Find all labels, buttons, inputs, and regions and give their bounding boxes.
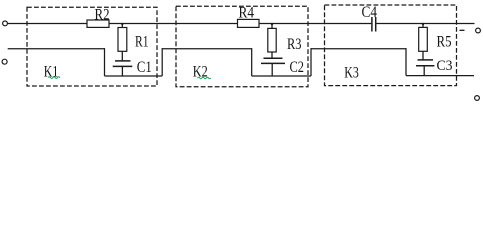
- wire R1 to C1: [121, 51, 123, 61]
- wire drop 3: [405, 48, 407, 76]
- resistor R2: [87, 20, 109, 27]
- wire top (R2 to R4): [109, 23, 238, 25]
- wire drop 2: [251, 48, 253, 76]
- wire lower rail segment 1: [8, 48, 105, 50]
- svg-text:C4: C4: [362, 4, 378, 21]
- node stub from top wire to R5: [422, 24, 424, 28]
- resistor R3: [268, 28, 276, 52]
- dashed box K3: [325, 5, 457, 86]
- terminal left-mid: [2, 59, 7, 64]
- node stub from top wire to R3: [271, 24, 273, 29]
- node stub from top wire to R1: [121, 24, 123, 28]
- stub dash near right-top terminal: [460, 29, 465, 31]
- resistor R5: [419, 27, 428, 51]
- grammar squiggle under K1: [48, 77, 60, 79]
- resistor R4: [238, 19, 260, 27]
- svg-text:K3: K3: [344, 64, 359, 81]
- wire dip 1: [105, 75, 163, 77]
- wire dip 2: [252, 75, 311, 77]
- capacitor C3 bottom plate: [416, 65, 434, 67]
- dashed box K2: [176, 6, 308, 87]
- wire top (C4 to right end): [376, 23, 474, 25]
- svg-text:C2: C2: [290, 59, 305, 76]
- capacitor C2 bottom plate: [261, 62, 285, 64]
- capacitor C1 top plate: [115, 60, 131, 62]
- wire lower rail segment 2: [162, 48, 252, 50]
- svg-text:C3: C3: [437, 58, 453, 74]
- svg-text:K2: K2: [193, 63, 208, 80]
- svg-text:R3: R3: [287, 36, 302, 53]
- wire R3 to C2: [271, 52, 273, 58]
- wire top (R4 to C4): [259, 23, 372, 25]
- wire drop 1: [104, 48, 106, 76]
- capacitor C3 top plate: [418, 59, 434, 61]
- capacitor C4: [372, 17, 376, 32]
- resistor R1: [118, 28, 127, 52]
- terminal right-top: [476, 28, 481, 33]
- junction dot node 2: [271, 23, 273, 25]
- svg-text:R5: R5: [437, 33, 452, 50]
- wire C1 to rail: [121, 66, 123, 76]
- capacitor C1 bottom plate: [113, 65, 133, 67]
- svg-text:R1: R1: [135, 34, 149, 51]
- grammar squiggle under K2: [198, 77, 211, 79]
- capacitor C2 top plate: [264, 57, 283, 59]
- wire C2 to rail: [271, 63, 273, 76]
- wire R5 to C3: [422, 51, 424, 60]
- wire lower rail segment 3: [311, 48, 406, 50]
- svg-text:R4: R4: [239, 4, 255, 21]
- wire dip 3: [406, 75, 474, 77]
- junction dot node 1: [121, 23, 123, 25]
- wire rise 2: [310, 48, 312, 76]
- svg-text:C1: C1: [137, 59, 152, 76]
- terminal right-bottom: [475, 96, 480, 101]
- terminal left-top: [3, 21, 8, 26]
- junction dot node 3: [422, 23, 424, 25]
- svg-text:R2: R2: [95, 6, 110, 23]
- wire top (left of R2): [8, 23, 88, 25]
- dashed box K1: [27, 7, 157, 86]
- wire C3 to rail: [423, 66, 425, 76]
- wire rise 1: [161, 48, 163, 76]
